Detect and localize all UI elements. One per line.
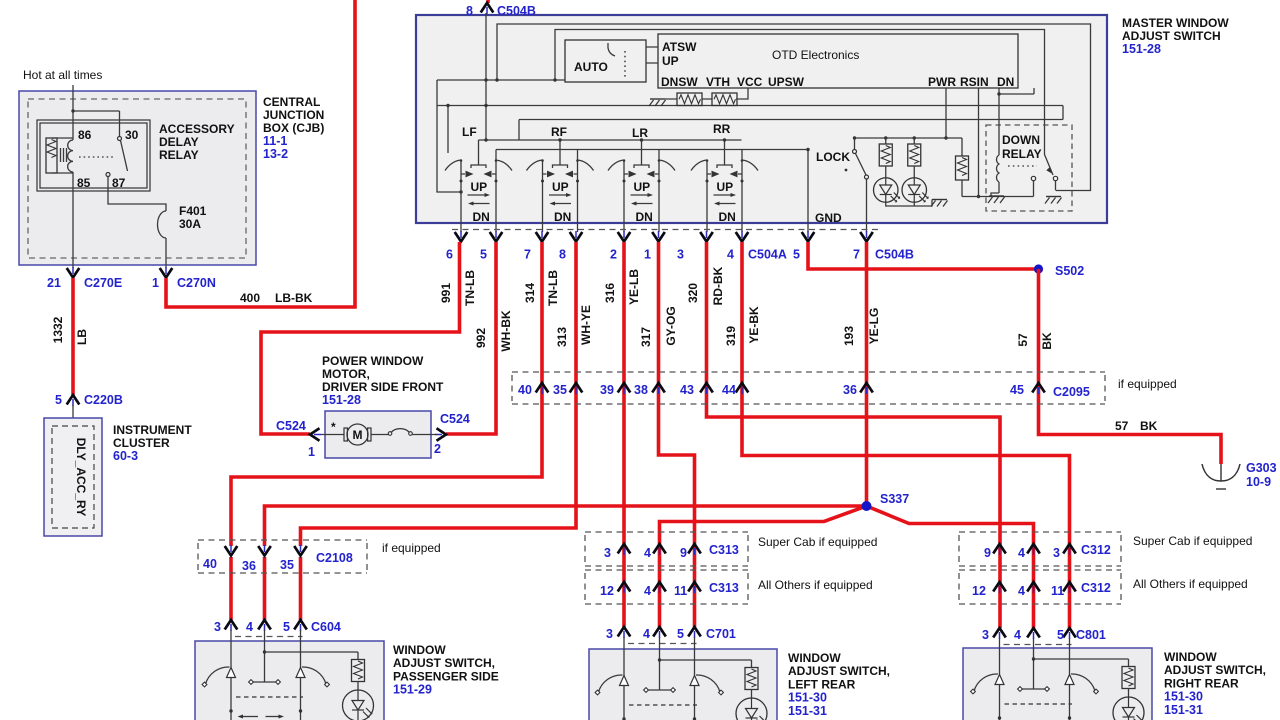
svg-text:992: 992 — [474, 328, 488, 348]
window adjust switch box left rear — [589, 649, 777, 720]
svg-text:DELAY: DELAY — [159, 135, 199, 149]
svg-text:40: 40 — [518, 383, 532, 397]
svg-text:C504B: C504B — [875, 248, 914, 262]
svg-text:LEFT REAR: LEFT REAR — [788, 677, 856, 691]
svg-text:C270N: C270N — [177, 276, 216, 290]
wire pin 8 feed inside switch — [485, 13, 487, 140]
svg-text:ATSW: ATSW — [662, 40, 697, 54]
svg-text:PASSENGER SIDE: PASSENGER SIDE — [393, 669, 499, 683]
OTD electronics labels — [661, 40, 1014, 89]
svg-text:6: 6 — [446, 248, 453, 262]
connector C524 pin 1 labels — [276, 419, 315, 459]
connector C2095 pin 44 arrow — [736, 383, 749, 394]
ground symbol relay lever — [1045, 197, 1062, 204]
connector C312 row2 pin 12 arrow — [993, 582, 1006, 593]
wire LED bus — [853, 136, 962, 139]
connector C220B labels — [55, 393, 123, 407]
connector C2095 dashed band — [512, 372, 1105, 404]
wire 57 BK S502 to G303 — [1039, 269, 1222, 464]
connector C312 row1 pin 9 arrow — [993, 544, 1006, 555]
wire resistor to LED passenger — [357, 682, 359, 691]
svg-text:314: 314 — [523, 283, 537, 303]
wire pin 87 to fuse — [108, 177, 166, 212]
wire 193 YE-LG pin 7 to splice S337 — [865, 242, 869, 506]
svg-text:151-31: 151-31 — [1164, 703, 1203, 717]
wire PWR to LED bus — [945, 88, 947, 138]
svg-text:UP: UP — [552, 180, 569, 194]
down relay lever — [1031, 155, 1057, 181]
svg-text:C2095: C2095 — [1053, 385, 1090, 399]
svg-text:RD-BK: RD-BK — [711, 266, 725, 305]
resistor illumination right rear — [1122, 667, 1135, 689]
LOCK switch — [845, 138, 869, 179]
window adjust switch box right rear — [963, 648, 1152, 720]
svg-text:3: 3 — [604, 546, 611, 560]
svg-text:3: 3 — [214, 620, 221, 634]
svg-text:YE-LG: YE-LG — [867, 308, 881, 345]
wire internal bus B — [555, 30, 1045, 155]
svg-text:S337: S337 — [880, 492, 909, 506]
wire coil to ground — [991, 182, 999, 196]
wire S337 branch to passenger switch pin 4 — [265, 506, 867, 620]
wire label 57 BK horizontal — [1115, 419, 1158, 433]
svg-text:YE-LB: YE-LB — [627, 269, 641, 305]
wire auto switch supply bus — [437, 78, 565, 81]
svg-text:C270E: C270E — [84, 276, 122, 290]
wire R1 to R2 — [665, 98, 712, 100]
wire internal bus A — [497, 24, 1091, 191]
svg-text:8: 8 — [559, 248, 566, 262]
switch right rear right lever arc — [1071, 674, 1095, 691]
ground symbol relay coil — [988, 196, 1005, 203]
connector C504 pin 7 arrow at x542 — [536, 231, 549, 242]
svg-text:5: 5 — [793, 248, 800, 262]
svg-text:3: 3 — [982, 628, 989, 642]
connector C313 row1 pin 3 arrow — [618, 544, 631, 555]
svg-text:TN-LB: TN-LB — [463, 270, 477, 306]
svg-text:C701: C701 — [706, 627, 736, 641]
relay switch lever — [121, 141, 128, 172]
svg-text:151-30: 151-30 — [788, 691, 827, 705]
wire right rear pin wires into box — [1000, 638, 1070, 720]
LED D2 — [902, 178, 929, 203]
connector right rear dashed line — [1004, 644, 1072, 646]
svg-text:Hot at all times: Hot at all times — [23, 68, 102, 82]
svg-text:4: 4 — [1018, 584, 1025, 598]
wire passenger pin wires into box — [231, 630, 301, 720]
svg-text:All Others if equipped: All Others if equipped — [1133, 577, 1248, 591]
svg-text:AUTO: AUTO — [574, 60, 608, 74]
svg-text:9: 9 — [680, 546, 687, 560]
svg-text:319: 319 — [724, 326, 738, 346]
relay actuation dotted link — [79, 156, 114, 158]
svg-text:317: 317 — [639, 327, 653, 347]
switch passenger dashed mechanical link — [236, 696, 303, 698]
switch passenger up down mini arrows — [238, 715, 285, 719]
svg-text:if equipped: if equipped — [382, 541, 441, 555]
svg-text:JUNCTION: JUNCTION — [263, 108, 324, 122]
connector C2095 pin 35 arrow — [570, 383, 583, 394]
svg-text:INSTRUMENT: INSTRUMENT — [113, 423, 192, 437]
svg-text:C2108: C2108 — [316, 551, 353, 565]
svg-text:2: 2 — [434, 442, 441, 456]
svg-text:DN: DN — [554, 210, 571, 224]
svg-text:43: 43 — [680, 383, 694, 397]
relay coil — [68, 140, 73, 172]
svg-text:3: 3 — [606, 627, 613, 641]
auto switch dotted link — [624, 51, 626, 79]
wire 991 TN-LB pin 6 to motor — [261, 242, 460, 434]
connector C504 pin 5 arrow at x496 — [490, 231, 503, 242]
svg-text:LR: LR — [632, 126, 648, 140]
svg-text:POWER WINDOW: POWER WINDOW — [322, 354, 424, 368]
wire fuse to connector C270N — [165, 238, 167, 268]
wire relay NO to bus A — [1055, 181, 1057, 191]
svg-text:151-31: 151-31 — [788, 704, 827, 718]
svg-text:C313: C313 — [709, 543, 739, 557]
connector C313 row1 pin 9 arrow — [688, 544, 701, 555]
connector C312 all others dashed box — [959, 570, 1121, 604]
resistor R2 VTH — [712, 93, 737, 106]
relay name label — [159, 122, 235, 162]
svg-text:1: 1 — [308, 445, 315, 459]
connector C312 row2 pin 11 arrow — [1063, 582, 1076, 593]
svg-text:36: 36 — [843, 383, 857, 397]
svg-text:400: 400 — [240, 291, 260, 305]
svg-text:C312: C312 — [1081, 581, 1111, 595]
connector C2108 pin 35 arrow — [294, 545, 307, 556]
wire relay pin 85 to connector C270E — [72, 172, 74, 268]
svg-text:4: 4 — [643, 627, 650, 641]
connector C524 pin 2 arrow — [435, 428, 446, 441]
svg-text:7: 7 — [853, 248, 860, 262]
motor M symbol — [321, 420, 389, 445]
svg-text:5: 5 — [1057, 628, 1064, 642]
connector C270E pin 21 arrow — [67, 267, 80, 278]
connector C313 super cab dashed box — [585, 532, 748, 566]
svg-text:5: 5 — [677, 627, 684, 641]
svg-text:C312: C312 — [1081, 543, 1111, 557]
svg-text:UPSW: UPSW — [768, 75, 805, 89]
switch passenger center contact tee — [249, 650, 281, 684]
svg-text:3: 3 — [1053, 546, 1060, 560]
resistor R4 LED right — [908, 138, 921, 178]
connector left rear dashed line — [628, 643, 697, 645]
switch left rear down contact triangle — [690, 676, 699, 686]
CJB name labels — [263, 95, 324, 161]
wire 400 LB-BK battery feed — [166, 0, 355, 307]
connector C504 pin 4 arrow at x742 — [736, 231, 749, 242]
svg-text:RIGHT REAR: RIGHT REAR — [1164, 676, 1239, 690]
switch left rear center contact tee — [644, 658, 676, 692]
svg-text:87: 87 — [112, 176, 126, 190]
connector C313 row2 pin 11 arrow — [688, 582, 701, 593]
svg-text:M: M — [353, 428, 363, 442]
svg-text:4: 4 — [644, 546, 651, 560]
svg-text:21: 21 — [47, 276, 61, 290]
svg-text:LOCK: LOCK — [816, 150, 850, 164]
wire passenger to illumination resistor — [265, 652, 359, 660]
svg-text:CLUSTER: CLUSTER — [113, 436, 170, 450]
ground G303 symbol — [1202, 464, 1240, 489]
svg-text:MOTOR,: MOTOR, — [322, 367, 370, 381]
connector C504B pin 8 arrow — [481, 3, 494, 14]
svg-text:86: 86 — [78, 128, 92, 142]
relay switch contact 87 — [106, 173, 110, 177]
connector C524 pin 1 arrow — [310, 428, 321, 441]
resistor illumination left rear — [745, 668, 758, 690]
svg-text:RELAY: RELAY — [1002, 147, 1042, 161]
svg-text:RR: RR — [713, 122, 731, 136]
connector passenger dashed line — [235, 636, 303, 638]
connector C504 pin 3 arrow at x706 — [700, 231, 713, 242]
relay core lines — [52, 138, 74, 173]
svg-text:36: 36 — [242, 559, 256, 573]
wire 313 WH-YE pin 8 to passenger switch — [301, 242, 577, 620]
wire 57 BK ground pin 5 to S502 — [808, 242, 1039, 269]
splice S337 — [862, 501, 872, 511]
wire R2 to VCC — [736, 88, 748, 99]
wire 314 TN-LB pin 7 to passenger switch — [231, 242, 542, 620]
connector C2095 pin 39 arrow — [618, 383, 631, 394]
switch cluster LF — [445, 140, 512, 232]
svg-text:DN: DN — [719, 210, 736, 224]
svg-text:RF: RF — [551, 125, 567, 139]
wire left rear to illumination resistor — [660, 660, 752, 668]
OTD electronics box U1 — [658, 34, 1018, 88]
down relay coil — [996, 155, 999, 182]
LED illumination passenger — [343, 690, 374, 720]
svg-text:C504A: C504A — [748, 248, 787, 262]
svg-text:C604: C604 — [311, 620, 341, 634]
svg-text:ADJUST SWITCH,: ADJUST SWITCH, — [788, 664, 890, 678]
auto switch box — [565, 40, 646, 82]
switch left rear left lever arc — [599, 675, 623, 692]
wire resistor to LED right rear — [1128, 689, 1130, 698]
svg-text:BK: BK — [1040, 332, 1054, 350]
svg-text:57: 57 — [1016, 333, 1030, 347]
switch left rear up contact triangle — [620, 676, 629, 686]
wire auto to OTD stubs — [646, 47, 658, 63]
connector C312 super cab dashed box — [959, 532, 1121, 566]
svg-text:151-28: 151-28 — [322, 393, 361, 407]
svg-text:ADJUST SWITCH,: ADJUST SWITCH, — [1164, 663, 1266, 677]
wire cluster bus 1 — [479, 138, 742, 141]
svg-text:1: 1 — [152, 276, 159, 290]
connector C312 row1 pin 4 arrow — [1027, 544, 1040, 555]
wire branch to relay pin 30 — [71, 109, 119, 136]
svg-text:4: 4 — [644, 584, 651, 598]
relay coil resistor — [46, 138, 57, 173]
wire internal bus D — [519, 106, 1063, 141]
svg-text:LF: LF — [462, 125, 477, 139]
svg-text:60-3: 60-3 — [113, 449, 138, 463]
svg-text:GY-OG: GY-OG — [664, 306, 678, 345]
auto switch contact — [608, 43, 615, 56]
svg-text:5: 5 — [283, 620, 290, 634]
connector C2108 pin 36 arrow — [258, 545, 271, 556]
svg-text:44: 44 — [722, 383, 736, 397]
power window motor M1 box — [325, 411, 431, 458]
svg-text:35: 35 — [280, 558, 294, 572]
switch right rear up contact triangle — [995, 675, 1004, 685]
connector C504 dashed line — [452, 229, 878, 231]
switch passenger up contact triangle — [227, 668, 236, 678]
svg-text:C524: C524 — [440, 412, 470, 426]
connector C504 pin 7 arrow at x866 — [860, 231, 873, 242]
svg-text:991: 991 — [439, 283, 453, 303]
connector C220B pin 5 arrow — [67, 395, 80, 406]
switch passenger right lever arc — [302, 667, 326, 684]
svg-text:11: 11 — [1051, 584, 1064, 598]
svg-text:9: 9 — [984, 546, 991, 560]
svg-text:if equipped: if equipped — [1118, 377, 1177, 391]
wire R5 to relay contact — [962, 196, 1034, 198]
LED illumination right rear — [1113, 697, 1144, 720]
svg-text:151-29: 151-29 — [393, 683, 432, 697]
splice S502 — [1034, 264, 1043, 273]
svg-text:DLY_ACC_RY: DLY_ACC_RY — [74, 438, 88, 516]
svg-text:ADJUST SWITCH,: ADJUST SWITCH, — [393, 656, 495, 670]
svg-text:LB-BK: LB-BK — [275, 291, 313, 305]
svg-text:OTD Electronics: OTD Electronics — [772, 48, 859, 62]
svg-text:DNSW: DNSW — [661, 75, 698, 89]
switch cluster RF — [527, 140, 594, 232]
down relay K2 dashed box — [986, 125, 1072, 211]
svg-text:316: 316 — [603, 283, 617, 303]
connector C270E labels — [47, 276, 122, 290]
switch cluster LR — [608, 140, 675, 232]
connector C504 pin 1 arrow at x658 — [652, 231, 665, 242]
connector C2095 pin 45 arrow — [1032, 383, 1045, 394]
svg-text:4: 4 — [1018, 546, 1025, 560]
svg-text:11: 11 — [674, 584, 687, 598]
svg-text:30: 30 — [125, 128, 139, 142]
instrument cluster box — [44, 418, 102, 536]
connector C2095 pin 38 arrow — [652, 383, 665, 394]
svg-text:Super Cab if equipped: Super Cab if equipped — [1133, 534, 1252, 548]
svg-text:MASTER WINDOW: MASTER WINDOW — [1122, 16, 1229, 30]
svg-text:4: 4 — [727, 248, 734, 262]
svg-text:151-30: 151-30 — [1164, 690, 1203, 704]
connector C504 pin 8 arrow at x576 — [570, 231, 583, 242]
connector C604 arrows passenger — [225, 620, 238, 631]
resistor illumination passenger — [352, 660, 365, 682]
wire left rear pin wires into box — [624, 637, 695, 720]
connector C801 arrows right rear — [993, 628, 1006, 639]
fuse F401 — [158, 211, 166, 238]
svg-text:C313: C313 — [709, 581, 739, 595]
connector C2108 pin 40 arrow — [225, 545, 238, 556]
ground symbol VTH divider — [649, 99, 666, 106]
connector C313 row2 pin 12 arrow — [618, 582, 631, 593]
down relay label — [1002, 133, 1042, 161]
svg-text:8: 8 — [466, 4, 473, 18]
wire S337 branch to left rear switch pin 4 — [660, 506, 867, 627]
svg-text:GND: GND — [815, 211, 842, 225]
connector C313 row2 pin 4 arrow — [653, 582, 666, 593]
instrument cluster name — [113, 423, 192, 463]
wire 316 YE-LB pin 2 to left rear switch — [622, 242, 626, 627]
connector C524 pin 2 labels — [434, 412, 470, 456]
connector C2095 pin 43 arrow — [700, 383, 713, 394]
wire 317 GY-OG pin 1 to left rear switch — [659, 242, 695, 627]
svg-text:CENTRAL: CENTRAL — [263, 95, 320, 109]
switch left rear right lever arc — [696, 675, 720, 692]
switch right rear dashed mechanical link — [1005, 703, 1073, 705]
svg-text:10-9: 10-9 — [1246, 475, 1271, 489]
wire into instrument cluster — [72, 405, 74, 426]
resistor R3 LED left — [879, 138, 892, 178]
motor name label — [322, 354, 444, 407]
connector C312 row1 pin 3 arrow — [1063, 544, 1076, 555]
svg-text:DOWN: DOWN — [1002, 133, 1040, 147]
svg-text:57: 57 — [1115, 419, 1129, 433]
svg-text:151-28: 151-28 — [1122, 42, 1161, 56]
svg-text:BOX (CJB): BOX (CJB) — [263, 121, 324, 135]
wire RSIN line — [977, 88, 980, 198]
ground symbol LED — [931, 200, 948, 207]
svg-text:1332: 1332 — [51, 316, 65, 343]
svg-text:C504B: C504B — [497, 4, 536, 18]
svg-text:45: 45 — [1010, 383, 1024, 397]
svg-text:320: 320 — [686, 283, 700, 303]
svg-text:Super Cab if equipped: Super Cab if equipped — [758, 535, 877, 549]
wire S337 branch to right rear switch pin 4 — [867, 506, 1034, 628]
svg-text:RSIN: RSIN — [960, 75, 989, 89]
svg-text:1: 1 — [644, 248, 651, 262]
switch left rear dashed mechanical link — [629, 704, 697, 706]
wire resistor to LED left rear — [751, 690, 753, 699]
wire cluster bus 2 to GND pin — [496, 149, 808, 151]
svg-text:YE-BK: YE-BK — [747, 306, 761, 344]
svg-text:193: 193 — [842, 326, 856, 346]
svg-text:UP: UP — [662, 54, 679, 68]
accessory delay relay K1 box — [37, 120, 150, 191]
svg-text:DN: DN — [473, 210, 490, 224]
switch right rear center contact tee — [1018, 657, 1050, 691]
svg-text:35: 35 — [553, 383, 567, 397]
svg-text:WINDOW: WINDOW — [1164, 650, 1217, 664]
connector C504B pin 8 labels — [466, 4, 536, 18]
wire DN to relay coil — [997, 88, 1034, 155]
svg-text:RELAY: RELAY — [159, 148, 199, 162]
svg-text:All Others if equipped: All Others if equipped — [758, 578, 873, 592]
connector C313 row1 pin 4 arrow — [653, 544, 666, 555]
svg-text:PWR: PWR — [928, 75, 956, 89]
switch right rear down contact triangle — [1065, 675, 1074, 685]
connector C701 arrows left rear — [618, 627, 631, 638]
svg-text:WINDOW: WINDOW — [788, 651, 841, 665]
svg-text:40: 40 — [203, 557, 217, 571]
connector C504 pin 6 arrow at x461 — [455, 231, 468, 242]
svg-text:UP: UP — [634, 180, 651, 194]
svg-text:G303: G303 — [1246, 461, 1277, 475]
svg-text:4: 4 — [246, 620, 253, 634]
svg-text:39: 39 — [600, 383, 614, 397]
wire LOCK to pin 7 — [866, 179, 868, 232]
svg-text:38: 38 — [634, 383, 648, 397]
connector C2095 pin 36 arrow — [860, 383, 873, 394]
svg-text:5: 5 — [480, 248, 487, 262]
connector C313 all others dashed box — [585, 570, 748, 604]
switch right rear left lever arc — [974, 674, 998, 691]
svg-text:F401: F401 — [179, 204, 207, 218]
LED illumination left rear — [736, 698, 767, 720]
ground G303 labels — [1246, 461, 1277, 489]
wire 1332 LB to instrument cluster — [71, 278, 75, 395]
wire 320 RD-BK pin 3 to right rear switch — [707, 242, 1001, 628]
